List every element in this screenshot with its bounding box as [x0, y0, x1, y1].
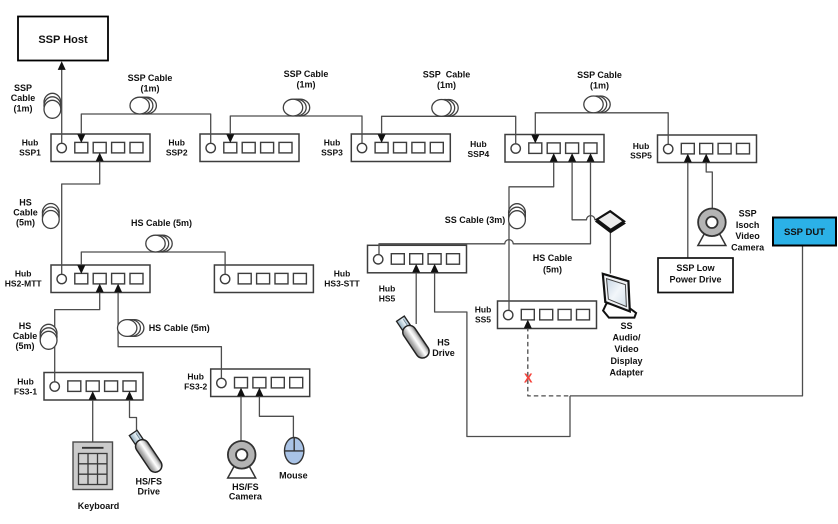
svg-text:HS Cable (5m): HS Cable (5m) [149, 323, 210, 333]
svg-text:Hub: Hub [633, 141, 650, 151]
svg-text:SSP: SSP [739, 209, 757, 219]
svg-text:SSP Cable: SSP Cable [284, 69, 329, 79]
svg-text:Keyboard: Keyboard [78, 501, 120, 511]
svg-text:SSP: SSP [14, 83, 32, 93]
svg-text:HS2-MTT: HS2-MTT [5, 279, 43, 289]
svg-text:(5m): (5m) [543, 265, 562, 275]
svg-text:SSP3: SSP3 [321, 148, 343, 158]
svg-text:HS/FS: HS/FS [232, 482, 259, 492]
svg-text:Cable: Cable [11, 93, 36, 103]
svg-text:HS: HS [437, 338, 450, 348]
svg-text:SSP Cable: SSP Cable [128, 73, 173, 83]
svg-text:SSP5: SSP5 [630, 151, 652, 161]
svg-text:SSP1: SSP1 [19, 148, 41, 158]
svg-text:Audio/: Audio/ [613, 333, 641, 343]
svg-text:Drive: Drive [432, 348, 455, 358]
svg-text:Video: Video [614, 344, 639, 354]
svg-text:HS: HS [19, 198, 32, 208]
svg-text:Hub: Hub [17, 377, 34, 387]
svg-text:Hub: Hub [187, 372, 204, 382]
svg-text:(1m): (1m) [437, 80, 456, 90]
svg-text:Hub: Hub [22, 138, 39, 148]
svg-text:Power Drive: Power Drive [669, 275, 721, 285]
svg-text:X: X [524, 371, 533, 386]
svg-text:(1m): (1m) [590, 81, 609, 91]
svg-text:Cable: Cable [13, 331, 38, 341]
svg-text:Hub: Hub [334, 269, 351, 279]
svg-text:HS5: HS5 [379, 294, 396, 304]
svg-text:SSP Cable: SSP Cable [577, 70, 622, 80]
svg-text:Cable: Cable [13, 208, 38, 218]
svg-text:(5m): (5m) [15, 341, 34, 351]
svg-text:HS Cable (5m): HS Cable (5m) [131, 218, 192, 228]
svg-text:HS: HS [19, 321, 32, 331]
svg-text:SSP2: SSP2 [166, 148, 188, 158]
svg-text:SSP Low: SSP Low [676, 263, 715, 273]
svg-text:SSP Cable: SSP Cable [423, 70, 471, 80]
svg-text:SSP DUT: SSP DUT [784, 227, 825, 238]
svg-text:(1m): (1m) [296, 80, 315, 90]
svg-text:Adapter: Adapter [609, 368, 644, 378]
svg-text:Isoch: Isoch [736, 220, 760, 230]
svg-text:SS5: SS5 [475, 315, 491, 325]
svg-text:FS3-2: FS3-2 [184, 382, 207, 392]
svg-text:Video: Video [735, 231, 760, 241]
svg-text:(1m): (1m) [13, 103, 32, 113]
svg-text:Hub: Hub [379, 284, 396, 294]
svg-text:SSP4: SSP4 [468, 149, 490, 159]
svg-text:FS3-1: FS3-1 [14, 387, 37, 397]
svg-text:Hub: Hub [475, 305, 492, 315]
svg-text:Hub: Hub [15, 269, 32, 279]
svg-text:SS Cable (3m): SS Cable (3m) [445, 215, 506, 225]
svg-text:HS/FS: HS/FS [136, 477, 163, 487]
svg-text:Drive: Drive [138, 487, 161, 497]
svg-text:Camera: Camera [731, 242, 765, 252]
svg-text:Hub: Hub [168, 138, 185, 148]
svg-text:(5m): (5m) [16, 218, 35, 228]
svg-text:Camera: Camera [229, 492, 263, 502]
svg-text:Mouse: Mouse [279, 471, 308, 481]
svg-text:SSP Host: SSP Host [38, 34, 88, 46]
svg-text:HS3-STT: HS3-STT [324, 279, 360, 289]
svg-text:Hub: Hub [324, 138, 341, 148]
svg-text:(1m): (1m) [140, 84, 159, 94]
svg-text:Display: Display [610, 356, 642, 366]
svg-text:SS: SS [620, 321, 632, 331]
svg-text:Hub: Hub [470, 139, 487, 149]
svg-text:HS Cable: HS Cable [533, 253, 573, 263]
